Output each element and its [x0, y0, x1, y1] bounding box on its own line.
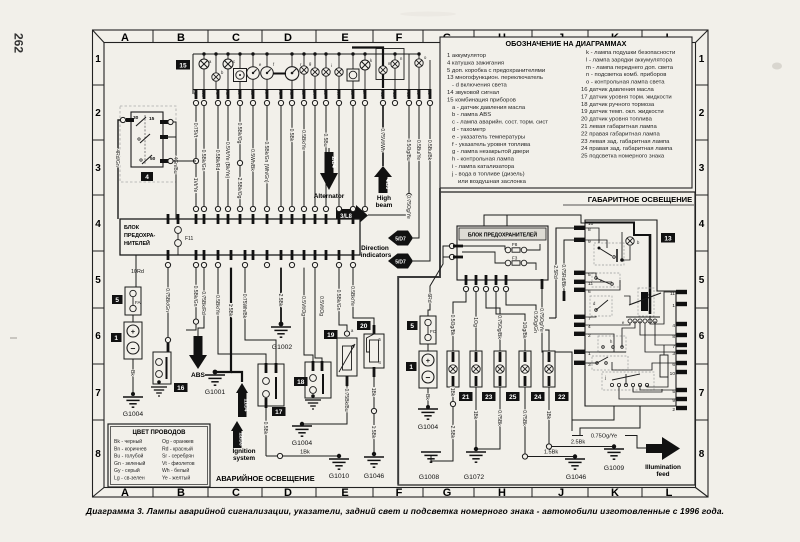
warning lamp c: [223, 59, 233, 69]
svg-text:7: 7: [95, 388, 101, 399]
svg-text:A: A: [121, 487, 129, 499]
wire 0.5Bk/Ye to U17: [214, 268, 266, 364]
svg-text:21 левая габаритная лампа: 21 левая габаритная лампа: [581, 124, 657, 130]
wire 0.75Og/Ye to illumination: [368, 106, 409, 215]
svg-text:0.75Og/Bk: 0.75Og/Bk: [496, 315, 502, 339]
left connector circles: [449, 243, 454, 248]
label 16: [174, 383, 188, 392]
svg-text:0.5Bu: 0.5Bu: [322, 133, 328, 146]
svg-text:m: m: [388, 61, 392, 66]
svg-text:i - лампа катализатора: i - лампа катализатора: [452, 164, 515, 170]
wire 0.75Bk/Gn to U16: [164, 268, 170, 338]
svg-text:B1: B1: [416, 90, 421, 96]
wire 1.5Bk thick to G1001: [213, 268, 234, 375]
svg-text:6Rd: 6Rd: [426, 293, 432, 302]
svg-text:d - тахометр: d - тахометр: [452, 127, 486, 133]
ground G1001: [205, 375, 226, 396]
svg-text:1Og/Bk: 1Og/Bk: [521, 322, 527, 339]
scan smudge right margin: [772, 63, 782, 70]
wire 0.75Wh/Bk to U17: [241, 268, 276, 364]
switch contact c: [638, 288, 654, 316]
wire 1Bk 2.5Bk lamp21 to G1008: [431, 388, 456, 461]
svg-text:f - указатель уровня топлива: f - указатель уровня топлива: [452, 142, 531, 148]
left pin numbers: [588, 221, 594, 368]
svg-text:C: C: [232, 487, 240, 499]
cluster connector bar line: [193, 89, 430, 91]
svg-text:Bu - голубой: Bu - голубой: [114, 453, 144, 460]
wire color legend box ЦВЕТ ПРОВОДОВ: [108, 424, 210, 487]
warning lamp n: [391, 60, 399, 68]
svg-text:0.5Vt/Og: 0.5Vt/Og: [318, 296, 324, 316]
svg-text:Gn - зеленый: Gn - зеленый: [114, 460, 146, 467]
svg-text:4/D3: 4/D3: [384, 179, 390, 190]
svg-text:c: c: [648, 292, 650, 297]
svg-text:НИТЕЛЕЙ: НИТЕЛЕЙ: [124, 239, 150, 247]
svg-text:1Vt/Ye: 1Vt/Ye: [192, 178, 198, 193]
ignition switch U4: [120, 106, 176, 182]
ground G1009: [604, 449, 625, 472]
svg-text:2.5Bk/Og: 2.5Bk/Og: [236, 178, 242, 199]
svg-text:−: −: [131, 343, 136, 353]
warning lamp b: [212, 73, 220, 81]
svg-text:B: B: [177, 487, 185, 499]
svg-text:0.5Bk: 0.5Bk: [262, 422, 268, 435]
svg-text:0.5Bk/Gn: 0.5Bk/Gn: [192, 286, 198, 307]
svg-text:G1004: G1004: [418, 424, 439, 431]
svg-text:G1004: G1004: [123, 411, 144, 418]
svg-text:A12: A12: [406, 90, 411, 98]
switch contact d2: [590, 296, 612, 316]
column letter separators top: [153, 30, 642, 43]
svg-text:0.75Rd/Bk: 0.75Rd/Bk: [560, 264, 566, 288]
svg-text:G1009: G1009: [604, 465, 625, 472]
svg-text:0.75Vt/Wh: 0.75Vt/Wh: [379, 128, 385, 152]
warning lamp h: [311, 68, 319, 76]
svg-text:0.5Bk/Gn: 0.5Bk/Gn: [200, 150, 206, 171]
svg-text:0.5Bu/Bk: 0.5Bu/Bk: [426, 140, 432, 161]
scan smudge top: [400, 12, 456, 17]
wire 0.75Bk/Rd to ABS: [198, 268, 206, 336]
svg-text:F8: F8: [512, 242, 518, 247]
label 5: [112, 295, 123, 304]
cluster top bus: [193, 54, 420, 94]
label 5: [407, 321, 418, 330]
svg-text:4 катушка зажигания: 4 катушка зажигания: [447, 60, 504, 66]
dashed contact group 1-3: [592, 356, 628, 370]
svg-text:0.75Vt: 0.75Vt: [192, 123, 198, 138]
wire 4Gn/Bu: [164, 119, 178, 219]
svg-text:Lg - св-зелен: Lg - св-зелен: [114, 476, 145, 482]
svg-text:0.5Vt/Ye (Bk/Ye): 0.5Vt/Ye (Bk/Ye): [224, 142, 230, 179]
number plate lamp 25: [478, 351, 520, 449]
svg-text:1.5Bk: 1.5Bk: [227, 304, 233, 317]
wire 1Og to lamp 23: [472, 292, 478, 351]
svg-text:18 датчик ручного тормоза: 18 датчик ручного тормоза: [581, 102, 655, 108]
svg-text:0.5Vt/Og: 0.5Vt/Og: [300, 296, 306, 316]
fuse F3: [505, 260, 527, 266]
warning lamp k: [360, 60, 370, 70]
svg-text:8: 8: [95, 449, 101, 460]
svg-text:14 звуковой сигнал: 14 звуковой сигнал: [447, 89, 500, 96]
warning lamp j: [335, 68, 343, 76]
svg-text:1.5Bk: 1.5Bk: [370, 426, 376, 439]
svg-text:2: 2: [95, 108, 101, 119]
coolant temp sensor U19: [324, 268, 357, 376]
svg-text:10: 10: [670, 371, 676, 377]
arrow 4/D3 High beam: [374, 166, 393, 209]
wire Bk battery to ground: [129, 359, 135, 396]
svg-text:Ye - желтый: Ye - желтый: [162, 475, 190, 482]
svg-text:5: 5: [699, 275, 705, 286]
svg-text:1 аккумулятор: 1 аккумулятор: [447, 53, 487, 59]
svg-text:0.5Bk/Gn (Wh/Gn): 0.5Bk/Gn (Wh/Gn): [263, 141, 269, 182]
box around lamps m n: [376, 49, 404, 80]
svg-text:15: 15: [149, 116, 155, 122]
svg-text:4: 4: [672, 323, 675, 329]
wire gauge link: [273, 73, 286, 75]
cluster pin labels: [193, 90, 432, 98]
svg-text:Sr - серебрян: Sr - серебрян: [162, 454, 194, 460]
svg-text:e - указатель температуры: e - указатель температуры: [452, 134, 525, 140]
fuse box top row ticks and circles: [167, 206, 368, 224]
svg-text:system: system: [233, 455, 255, 462]
wire ignition 50 to 0.75Vt node: [168, 158, 196, 163]
svg-text:a - датчик давления масла: a - датчик давления масла: [452, 105, 526, 111]
svg-text:Alternator: Alternator: [314, 193, 345, 200]
svg-text:g - лампа незакрытой двери: g - лампа незакрытой двери: [452, 148, 529, 155]
svg-text:beam: beam: [376, 202, 393, 209]
svg-text:B9: B9: [237, 90, 242, 96]
ground G1004 right: [418, 409, 439, 431]
fuse FC U5 right: [407, 316, 437, 344]
wire 4Rd/Gn: [114, 117, 126, 219]
wire switch pin10 to fuse box feed: [484, 215, 585, 226]
svg-text:ABS: ABS: [191, 372, 206, 379]
svg-text:A: A: [121, 32, 129, 44]
label 15: [176, 60, 190, 70]
fuse box bottom row ticks and circles: [165, 250, 355, 268]
svg-text:262: 262: [12, 33, 26, 53]
wire 0.5Bu/Bk to direction ind 2: [413, 106, 430, 261]
svg-text:Illumination: Illumination: [645, 464, 681, 471]
svg-text:5: 5: [410, 323, 414, 330]
svg-text:0.75Bk/Rd: 0.75Bk/Rd: [200, 291, 206, 315]
svg-text:1Bk: 1Bk: [449, 388, 455, 397]
svg-text:3: 3: [95, 163, 101, 174]
svg-text:E: E: [341, 32, 348, 44]
svg-text:5 доп. коробка с предохранител: 5 доп. коробка с предохранителями: [447, 68, 545, 74]
cluster thick feed wire: [352, 48, 383, 89]
svg-text:0.5Wh/Bk: 0.5Wh/Bk: [249, 149, 255, 171]
svg-text:0.75Og/Ye: 0.75Og/Ye: [405, 195, 411, 219]
cluster symbol letters: [209, 55, 427, 75]
right fuse box БЛОК ПРЕДОХРАНИТЕЛЕЙ: [443, 226, 548, 280]
cluster connector bar ticks: [195, 89, 432, 99]
svg-text:23 левая зад. габаритная лампа: 23 левая зад. габаритная лампа: [581, 139, 670, 145]
svg-text:B5: B5: [323, 90, 328, 96]
svg-text:G: G: [443, 487, 452, 499]
label 1: [406, 362, 417, 371]
svg-text:или воздушная заслонка: или воздушная заслонка: [458, 179, 527, 185]
indicator module B6: [347, 69, 359, 81]
svg-text:FA: FA: [135, 300, 142, 305]
svg-text:20 датчик уровня топлива: 20 датчик уровня топлива: [581, 117, 653, 123]
svg-text:25 подсветка номерного знака: 25 подсветка номерного знака: [581, 154, 665, 160]
frame corner bevel BR: [696, 488, 709, 498]
fuse F11: [175, 227, 182, 255]
svg-text:12/D3: 12/D3: [238, 432, 244, 446]
switch contact e: [592, 273, 620, 287]
svg-text:0.5Bk/Og: 0.5Bk/Og: [236, 123, 242, 144]
left area right boundary wire: [398, 188, 440, 484]
resistor inside switch: [660, 355, 668, 377]
svg-text:4Gn/Bu: 4Gn/Bu: [172, 157, 178, 174]
svg-text:j - вода в топливе (дизель): j - вода в топливе (дизель): [451, 171, 525, 177]
frame corner bevel TR: [696, 30, 709, 43]
svg-text:Bn - коричнев: Bn - коричнев: [114, 446, 147, 452]
wire 2.5Bk lamp22 to G1009: [546, 440, 616, 450]
row numbers left: [95, 54, 101, 460]
svg-text:18: 18: [297, 379, 305, 386]
column letter separators bottom: [153, 488, 642, 498]
svg-text:0.5Bu/Ye: 0.5Bu/Ye: [415, 140, 421, 160]
svg-text:2.5Bk: 2.5Bk: [449, 426, 455, 439]
svg-text:A6: A6: [289, 90, 294, 96]
switch contact bar mid: [629, 293, 661, 305]
row numbers right: [699, 54, 705, 460]
svg-text:5: 5: [115, 297, 119, 304]
svg-text:17 датчик уровня торм. жидкост: 17 датчик уровня торм. жидкости: [581, 94, 672, 100]
svg-text:FC: FC: [430, 329, 437, 334]
svg-text:5: 5: [95, 275, 101, 286]
fuse box bottom ticks: [463, 275, 508, 292]
battery U1 right: [406, 344, 437, 388]
svg-text:ЦВЕТ ПРОВОДОВ: ЦВЕТ ПРОВОДОВ: [133, 430, 187, 436]
svg-text:1: 1: [114, 335, 118, 342]
svg-text:High: High: [377, 195, 391, 202]
svg-text:A7: A7: [264, 90, 269, 96]
svg-text:0.75Bk: 0.75Bk: [521, 410, 527, 426]
ground G1072: [464, 452, 486, 481]
svg-text:D: D: [284, 32, 292, 44]
svg-text:Direction: Direction: [361, 245, 389, 252]
svg-text:ОБОЗНАЧЕНИЕ НА ДИАГРАММАХ: ОБОЗНАЧЕНИЕ НА ДИАГРАММАХ: [506, 39, 627, 48]
svg-text:1: 1: [409, 364, 413, 371]
svg-text:24 правая зад. габаритная ламп: 24 правая зад. габаритная лампа: [581, 146, 673, 152]
svg-text:G1046: G1046: [364, 473, 385, 480]
svg-text:2.5Rd: 2.5Rd: [552, 265, 558, 279]
svg-text:6: 6: [95, 331, 101, 342]
ground G1002: [271, 327, 292, 351]
label 17: [272, 407, 286, 416]
svg-text:1Bk: 1Bk: [370, 388, 376, 397]
svg-text:8: 8: [699, 449, 705, 460]
ground G1004 left: [123, 397, 144, 418]
svg-text:G1004: G1004: [292, 440, 313, 447]
svg-text:h - контрольная лампа: h - контрольная лампа: [452, 157, 515, 163]
column letters bottom: [121, 487, 673, 499]
lamp b inside switch: [626, 237, 634, 245]
svg-text:6: 6: [699, 331, 705, 342]
svg-text:2.5Bk: 2.5Bk: [571, 440, 586, 446]
svg-text:1Bk: 1Bk: [300, 450, 310, 456]
inline connector circles on wires: [193, 158, 411, 198]
svg-text:19 датчик темп. окл. жидкости: 19 датчик темп. окл. жидкости: [581, 109, 664, 115]
svg-text:l - лампа зарядки аккумулятора: l - лампа зарядки аккумулятора: [586, 57, 673, 63]
svg-text:4: 4: [699, 219, 705, 230]
svg-text:19: 19: [327, 332, 335, 339]
svg-text:0.5Bk/Ye: 0.5Bk/Ye: [214, 295, 220, 315]
svg-text:2: 2: [672, 407, 675, 413]
svg-text:B: B: [177, 32, 185, 44]
ground G1010: [329, 459, 350, 480]
label 20: [357, 321, 371, 330]
gauge: [285, 67, 299, 81]
wire 0.75Og/Ye feed: [538, 279, 572, 431]
rear lamp 21: [447, 351, 473, 401]
wire 0.5Og/Bk to lamp 21: [449, 292, 466, 351]
svg-text:L: L: [666, 487, 673, 499]
svg-text:3: 3: [699, 163, 705, 174]
wire 0.5Bk bend to alternator: [291, 150, 293, 208]
label 1: [111, 333, 122, 342]
svg-text:B10: B10: [201, 90, 206, 98]
ground under U18: [305, 400, 321, 409]
svg-text:1: 1: [672, 303, 675, 309]
svg-text:G1010: G1010: [329, 473, 350, 480]
svg-text:21: 21: [462, 394, 470, 401]
svg-text:m - лампа переднего доп. света: m - лампа переднего доп. света: [586, 65, 674, 71]
wire 6Rd to FC: [426, 246, 449, 316]
wire 2.5Rd fuse to switch: [549, 228, 574, 318]
svg-text:B2: B2: [427, 90, 432, 96]
svg-text:k - лампа подушки безопасности: k - лампа подушки безопасности: [586, 50, 675, 56]
fuel level sender U20: [349, 268, 384, 368]
svg-text:БЛОК: БЛОК: [124, 225, 140, 231]
label 4: [141, 172, 153, 181]
svg-text:БЛОК ПРЕДОХРАНИТЕЛЕЙ: БЛОК ПРЕДОХРАНИТЕЛЕЙ: [468, 231, 537, 239]
svg-text:n - подсветка комб. приборов: n - подсветка комб. приборов: [586, 72, 666, 78]
column letters top: [121, 32, 673, 44]
svg-text:j: j: [604, 375, 606, 380]
svg-text:G1001: G1001: [205, 389, 226, 396]
battery U1 left: [111, 315, 142, 359]
arrow 11/D4: [231, 372, 249, 417]
ground G1008: [419, 452, 441, 481]
svg-text:0.5Bk/Gn: 0.5Bk/Gn: [335, 290, 341, 311]
svg-text:ПРЕДОХРА-: ПРЕДОХРА-: [124, 233, 156, 239]
arrow Illumination feed: [645, 437, 681, 478]
arrow 2/D4 Alternator: [314, 148, 345, 200]
svg-text:1Bk: 1Bk: [545, 411, 551, 420]
switch contact j bottom: [602, 372, 654, 390]
svg-text:0.75Og/Ye: 0.75Og/Ye: [591, 434, 617, 440]
svg-text:0.5Og/Gn: 0.5Og/Gn: [532, 311, 538, 333]
fuse FA U5: [112, 287, 142, 315]
wire 0.75Og/Bk to lamp 25: [486, 292, 502, 351]
svg-text:13: 13: [664, 236, 672, 243]
ground G1046 left: [364, 457, 385, 480]
svg-text:c - лампа аварийн. сост. торм.: c - лампа аварийн. сост. торм. сист: [452, 119, 548, 126]
svg-text:16: 16: [177, 385, 185, 392]
svg-text:B3: B3: [301, 90, 306, 96]
svg-text:c: c: [233, 59, 235, 64]
svg-text:C: C: [232, 32, 240, 44]
svg-text:22 правая габаритная лампа: 22 правая габаритная лампа: [581, 131, 660, 137]
svg-text:F11: F11: [185, 236, 193, 242]
svg-text:2.5Bk: 2.5Bk: [277, 294, 283, 307]
label 18: [294, 377, 308, 386]
svg-text:0.5Og/Bu: 0.5Og/Bu: [405, 139, 411, 160]
svg-text:50: 50: [150, 156, 156, 162]
svg-text:−: −: [426, 372, 431, 382]
svg-text:25: 25: [509, 394, 517, 401]
oil pressure sensor U16: [151, 337, 188, 396]
svg-text:A4: A4: [336, 90, 341, 96]
warning lamp g: [300, 66, 308, 74]
svg-text:Vt - фиолетов: Vt - фиолетов: [162, 461, 195, 467]
wire 0.5Bk below U17: [262, 408, 268, 456]
wire 0.5Bu/Ye to direction ind 1: [413, 106, 419, 238]
wire Bk battery right: [424, 388, 430, 409]
svg-text:11/D4: 11/D4: [243, 398, 249, 411]
svg-text:Bk - черный: Bk - черный: [114, 438, 142, 445]
svg-text:G1008: G1008: [419, 474, 440, 481]
svg-text:15 комбинация приборов: 15 комбинация приборов: [447, 97, 516, 103]
multifunction switch U13: [574, 220, 687, 413]
ground G1046 right: [565, 459, 586, 481]
warning lamp i: [322, 68, 330, 76]
mid connector circles row: [622, 317, 660, 325]
legend box ОБОЗНАЧЕНИЕ НА ДИАГРАММАХ: [440, 37, 692, 188]
svg-text:o - контрольная лампа света: o - контрольная лампа света: [586, 80, 665, 86]
wire 2.5Bk to G1002: [277, 268, 283, 327]
svg-text:Bk: Bk: [424, 394, 430, 400]
svg-text:feed: feed: [656, 471, 669, 478]
svg-text:A11: A11: [380, 90, 385, 98]
scan mark left margin: [10, 337, 17, 339]
svg-text:Диаграмма 3. Лампы аварийной с: Диаграмма 3. Лампы аварийной сигнализаци…: [85, 506, 724, 516]
svg-text:23: 23: [485, 394, 493, 401]
svg-text:0.5Bk/Ye: 0.5Bk/Ye: [300, 130, 306, 150]
rear lamp 24: [519, 351, 545, 454]
svg-text:ГАБАРИТНОЕ ОСВЕЩЕНИЕ: ГАБАРИТНОЕ ОСВЕЩЕНИЕ: [588, 195, 692, 204]
svg-text:0.5Bk: 0.5Bk: [288, 129, 294, 142]
cluster bus junction dots: [202, 52, 420, 55]
svg-text:5/D7: 5/D7: [395, 259, 406, 265]
svg-text:5/D7: 5/D7: [395, 236, 406, 242]
switch contact d top: [594, 243, 624, 265]
svg-text:b - лампа ABS: b - лампа ABS: [452, 112, 491, 118]
left pin stubs: [574, 226, 585, 365]
svg-text:7: 7: [699, 388, 705, 399]
wire 0.75Rd/Bk fuse to switch: [560, 240, 574, 301]
row number separators left: [93, 85, 105, 420]
right pin numbers: [670, 291, 676, 413]
arrow 5/D7 direction indicators 1: [388, 231, 413, 246]
svg-text:Ignition: Ignition: [232, 448, 255, 455]
svg-text:+: +: [131, 327, 136, 336]
cluster connector circles: [193, 100, 432, 105]
svg-text:0.5Bk/Ye: 0.5Bk/Ye: [349, 286, 355, 306]
wire 1Bk bottom to G1010: [266, 450, 341, 459]
fuse F8: [505, 247, 527, 253]
svg-text:K: K: [611, 487, 619, 499]
svg-text:2/D4: 2/D4: [330, 156, 336, 169]
svg-text:10: 10: [588, 221, 594, 227]
section box ГАБАРИТНОЕ ОСВЕЩЕНИЕ: [398, 192, 695, 485]
svg-text:D: D: [284, 487, 292, 499]
